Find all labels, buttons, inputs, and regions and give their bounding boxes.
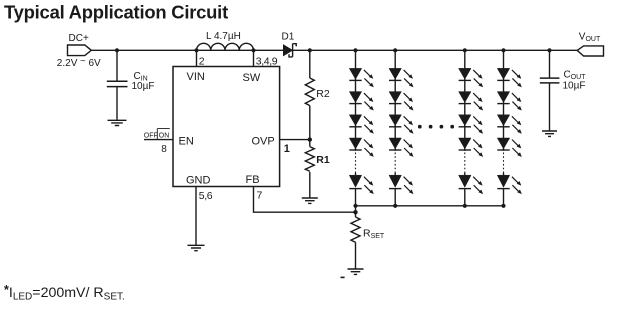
ground (R1) [302, 198, 318, 203]
node: junction D1 cathode / R2 top [308, 48, 312, 52]
svg-text:10µF: 10µF [563, 81, 586, 92]
op IC U1 body [173, 67, 280, 187]
pin number 7 [257, 189, 263, 201]
wire: rail to R2 [309, 50, 311, 78]
capacitor CIN 10uF [107, 81, 128, 86]
wire: CIN to ground [116, 87, 118, 120]
LED column 3 LED 3 [459, 115, 484, 134]
label L 4.7uH [206, 31, 241, 42]
LED column 3 LED 1 [459, 68, 484, 87]
node: junction bottom rail column 2 [393, 204, 397, 208]
svg-text:GND: GND [186, 175, 211, 187]
wire: node to RSET [355, 212, 357, 217]
IC pin label VIN [187, 71, 205, 83]
LED column 2 LED 4 [389, 138, 414, 157]
IC pin label SW [243, 72, 261, 84]
LED column 2 bottom LED [389, 173, 414, 194]
wire: GND pins 5,6 to ground [195, 187, 197, 245]
ellipsis dots (more LED strings) [418, 125, 454, 129]
node: junction bottom rail column 3 [463, 204, 467, 208]
wire: LED column 2 cathode to bottom rail [394, 189, 396, 206]
wire: EN pin 8 input [144, 139, 173, 141]
wire: main top rail from DC+ tag to VOUT tag [92, 49, 578, 51]
svg-text:VIN: VIN [187, 71, 205, 83]
label 10uF (COUT) [563, 81, 586, 92]
label R1 [316, 154, 330, 166]
LED column 4 LED 3 [497, 115, 522, 134]
wire: pins 3,4,9 SW from rail to IC [253, 50, 255, 66]
LED column 2 LED 3 [389, 115, 414, 134]
svg-text:2: 2 [199, 56, 205, 68]
wire: LED column 3 cathode to bottom rail [464, 189, 466, 206]
svg-text:FB: FB [246, 174, 260, 186]
pin number 1 [284, 143, 290, 155]
stray dash mark [341, 276, 345, 278]
svg-text:7: 7 [257, 189, 263, 201]
wire: pin 2 VIN from rail to IC [196, 50, 198, 66]
svg-text:R2: R2 [316, 88, 330, 100]
inductor L 4.7uH [197, 43, 254, 50]
LED column 4 bottom LED [497, 173, 522, 194]
resistor RSET [351, 217, 360, 242]
label 10uF (CIN) [132, 81, 155, 92]
wire: LED column 2 anode string [394, 50, 396, 151]
wire: LED column 4 dotted continuation [503, 153, 505, 174]
ground (RSET) [348, 269, 364, 274]
LED column 2 LED 2 [389, 92, 414, 111]
svg-text:3,4,9: 3,4,9 [256, 56, 278, 68]
node: junction FB / RSET [353, 210, 357, 214]
wire: LED column 3 dotted continuation [464, 153, 466, 174]
svg-text:EN: EN [179, 136, 194, 148]
pin number 2 [199, 56, 205, 68]
wire: OVP pin 1 to R1/R2 node [280, 139, 310, 141]
svg-text:ON: ON [159, 132, 170, 139]
wire: RSET to ground [355, 242, 357, 268]
diode D1 (Schottky) [283, 44, 296, 57]
pin number 8 [161, 144, 167, 155]
label OFF/ON (EN control) [144, 129, 170, 140]
node: junction bottom rail column 4 [501, 204, 505, 208]
wire: column 1 to FB/RSET node [355, 206, 357, 212]
title: Typical Application Circuit [4, 2, 228, 23]
svg-text:R1: R1 [316, 154, 330, 166]
LED column 3 bottom LED [459, 173, 484, 194]
LED column 4 LED 1 [497, 68, 522, 87]
svg-text:10µF: 10µF [132, 81, 155, 92]
IC pin label EN [179, 136, 194, 148]
wire: LED bottom cathode rail [356, 205, 504, 207]
ground (CIN) [108, 120, 127, 125]
svg-text:DC+: DC+ [69, 33, 89, 44]
ground (IC GND) [188, 245, 205, 250]
LED column 1 LED 4 [349, 138, 374, 157]
ground (COUT) [542, 131, 557, 136]
node: junction LED column 2 on top rail [393, 48, 397, 52]
svg-text:OVP: OVP [252, 136, 275, 148]
LED column 3 LED 4 [459, 138, 484, 157]
node: junction bottom rail column 1 [353, 204, 357, 208]
node: junction COUT on top rail [547, 48, 551, 52]
svg-text:1: 1 [284, 143, 290, 155]
label VOUT [579, 32, 601, 43]
label 2.2V ~ 6V [57, 56, 101, 69]
svg-text:2.2V ~ 6V: 2.2V ~ 6V [57, 56, 101, 69]
node: junction OVP / R2 / R1 [308, 137, 312, 141]
svg-text:Typical Application Circuit: Typical Application Circuit [4, 2, 228, 23]
label RSET [363, 228, 385, 241]
VOUT output terminal tag [577, 46, 603, 56]
LED column 1 LED 3 [349, 115, 374, 134]
resistor R2 [305, 78, 314, 106]
svg-text:OFF: OFF [144, 132, 158, 139]
node: junction LED column 4 on top rail [501, 48, 505, 52]
wire: COUT branch down [549, 50, 551, 78]
svg-text:8: 8 [161, 144, 167, 155]
label DC+ [69, 33, 89, 44]
node: junction LED column 3 on top rail [463, 48, 467, 52]
LED column 1 bottom LED [349, 173, 374, 194]
wire: LED column 1 dotted continuation [355, 153, 357, 174]
node: junction LED column 1 on top rail [353, 48, 357, 52]
LED column 1 LED 2 [349, 92, 374, 111]
label D1 [282, 32, 295, 43]
wire: LED column 4 anode string [503, 50, 505, 151]
wire: LED column 4 cathode to bottom rail [503, 189, 505, 206]
label COUT [564, 70, 587, 82]
label R2 [316, 88, 330, 100]
pin numbers 3,4,9 [256, 56, 278, 68]
wire: node to R1 [309, 140, 311, 147]
wire: R2 to OVP node [309, 106, 311, 140]
wire: COUT to ground [549, 83, 551, 131]
IC pin label FB [246, 174, 260, 186]
svg-text:D1: D1 [282, 32, 295, 43]
LED column 4 LED 4 [497, 138, 522, 157]
wire: FB pin 7 down and right to RSET node [254, 187, 356, 213]
node: junction inductor left / VIN pin 2 [194, 48, 198, 52]
pin numbers 5,6 [199, 190, 213, 202]
node: junction CIN on top rail [115, 48, 119, 52]
LED column 1 LED 1 [349, 68, 374, 87]
LED column 3 LED 2 [459, 92, 484, 111]
wire: CIN branch down [116, 50, 118, 81]
svg-text:5,6: 5,6 [199, 190, 213, 202]
IC pin label OVP [252, 136, 275, 148]
LED column 4 LED 2 [497, 92, 522, 111]
node: junction inductor right / SW pins 3,4,9 [251, 48, 255, 52]
svg-text:SW: SW [243, 72, 261, 84]
label CIN [134, 71, 148, 83]
LED column 2 LED 1 [389, 68, 414, 87]
DC+ input terminal tag [68, 45, 92, 56]
wire: LED column 2 dotted continuation [394, 153, 396, 174]
svg-text:L 4.7µH: L 4.7µH [206, 31, 241, 42]
capacitor COUT 10uF [540, 78, 560, 83]
wire: LED column 1 anode string [355, 50, 357, 151]
wire: R1 to ground [309, 172, 311, 198]
wire: LED column 3 anode string [464, 50, 466, 151]
note: *ILED=200mV/RSET [4, 283, 125, 303]
resistor R1 [305, 147, 314, 172]
wire: LED column 1 cathode to bottom rail [355, 189, 357, 206]
IC pin label GND [186, 175, 211, 187]
